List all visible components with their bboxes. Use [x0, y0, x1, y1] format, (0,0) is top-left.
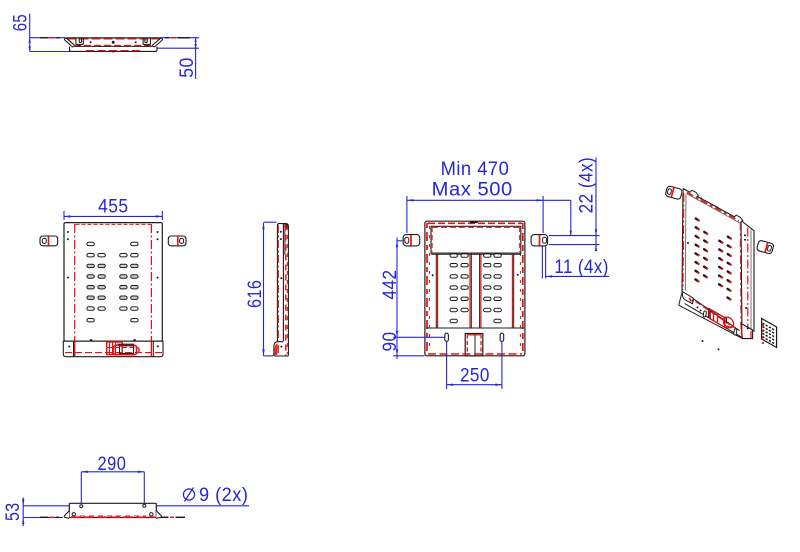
top view: red hidden line mid: [74, 44, 153, 46]
top view: center hole dot: [112, 41, 115, 44]
rear slot pattern: [450, 254, 501, 323]
rear left tab: [403, 235, 420, 246]
dimension 22 lines: [549, 158, 600, 251]
side tab edge black: [284, 224, 288, 229]
iso bottom band: [679, 293, 743, 339]
side red lines right strip: [285, 225, 287, 356]
top view: left hole dot: [90, 41, 92, 43]
svg-text:11 (4x): 11 (4x): [554, 257, 608, 278]
iso band red dash: [696, 302, 739, 331]
front plate outline: [64, 223, 162, 342]
bottom centerline dashes right: [161, 516, 185, 518]
bottom centerline dashes left: [40, 516, 59, 518]
bottom view bar: [69, 503, 156, 517]
right side tab: [168, 236, 186, 246]
bottom view red line: [71, 516, 155, 518]
dimension 65 lines: [30, 14, 70, 52]
corner hole dots: [67, 231, 159, 279]
rear mid red verticals: [438, 254, 513, 328]
iso red left edge: [682, 193, 685, 290]
side view outline: [274, 224, 289, 356]
red bend line left: [74, 224, 76, 356]
dimension 11 lines: [542, 247, 609, 279]
svg-text:65: 65: [10, 14, 31, 31]
rear red border hatch right: [522, 223, 524, 354]
dimension 290 lines: [81, 472, 144, 505]
side foot red blob: [275, 344, 278, 356]
iso bottom bracket red: [710, 309, 734, 328]
svg-text:442: 442: [380, 270, 401, 300]
top view: left wing: [64, 38, 74, 47]
bottom view left cap: [64, 511, 69, 519]
rear mid section verticals: [431, 253, 521, 328]
diameter leader line: [23, 505, 249, 507]
dimension 50 lines: [157, 38, 199, 79]
band red bend lines: [74, 341, 76, 357]
svg-text:53: 53: [3, 502, 24, 521]
iso small strainer part: [762, 318, 777, 347]
svg-text:Min 470: Min 470: [441, 159, 510, 180]
centerline dashes left: [40, 37, 60, 39]
bottom hooks on plate edge: [90, 339, 92, 341]
iso bottom bracket black: [708, 308, 726, 327]
top view: small marks: [78, 45, 148, 47]
dimension 616 lines: [264, 222, 277, 356]
centerline dashes right: [165, 37, 190, 39]
dimension 455 lines: [64, 211, 162, 220]
rear bottom center rect: [465, 334, 483, 356]
dimension minmax lines: [407, 196, 571, 236]
rear red border hatch left: [426, 223, 428, 354]
rear bottom band top edge: [426, 327, 524, 329]
central bracket red detail: [107, 342, 139, 355]
bottom view holes: [72, 504, 153, 516]
bottom view right cap: [156, 511, 161, 519]
band corner dots: [68, 346, 70, 348]
central bracket black detail: [118, 344, 135, 353]
side view dots: [280, 231, 283, 348]
svg-text:90: 90: [380, 332, 401, 352]
iso face dots: [687, 198, 747, 351]
dimension 442/90 lines: [393, 238, 445, 360]
red bend line right: [150, 224, 152, 356]
top view: back edge: [67, 37, 161, 39]
top view: left keyhole slot: [76, 39, 83, 45]
svg-text:9 (2x): 9 (2x): [199, 485, 248, 506]
svg-text:22 (4x): 22 (4x): [577, 157, 598, 214]
iso strainer red dots: [762, 324, 764, 344]
svg-text:50: 50: [177, 57, 198, 78]
top view: red back line: [68, 38, 160, 40]
bottom band outline: [63, 341, 163, 357]
iso left tab: [665, 186, 683, 200]
top view: right hole dot: [135, 41, 137, 43]
dimension 250 lines: [447, 342, 502, 390]
top view: right keyhole slot: [143, 39, 150, 45]
iso bottom band left foot: [682, 291, 693, 304]
rear top band: [431, 226, 521, 253]
iso right tab: [756, 240, 774, 254]
iso red right strip centerline: [747, 228, 749, 335]
left side tab: [40, 236, 58, 246]
iso slot pattern: [694, 217, 733, 301]
rear bottom slots: [445, 333, 449, 341]
svg-text:616: 616: [245, 280, 266, 308]
red top hidden line: [76, 223, 152, 225]
band red dashed bottom: [65, 352, 162, 354]
top view: red hidden line bottom: [86, 50, 141, 52]
rear top center mark: [470, 221, 478, 223]
iso red top edge: [687, 193, 739, 222]
bottom view red dash inner: [80, 515, 146, 517]
rear red top hatch: [428, 222, 522, 224]
rear plate outline: [425, 221, 525, 356]
dimension 53 lines: [23, 498, 63, 527]
svg-text:250: 250: [460, 365, 490, 386]
slot pattern front view: [87, 242, 138, 322]
iso top hooks: [690, 190, 743, 222]
svg-text:455: 455: [98, 197, 128, 218]
iso main face: [682, 189, 754, 338]
rear right tab: [531, 235, 548, 246]
side red centerline left: [277, 225, 279, 355]
rear mid dots: [432, 274, 434, 276]
rear bottom red dashes: [428, 353, 522, 355]
rear bottom center red: [467, 335, 481, 356]
iso bottom right foot: [741, 323, 753, 338]
iso band slots: [703, 311, 737, 335]
top view: bottom edge of bar: [75, 45, 153, 47]
rear top band red dashes: [432, 227, 520, 252]
top view: front flange: [70, 47, 158, 52]
band inner verticals: [73, 341, 75, 357]
top view: right wing: [152, 38, 162, 47]
iso inner edges: [685, 194, 751, 334]
svg-text:Max 500: Max 500: [432, 180, 513, 201]
iso red right inner: [739, 223, 742, 335]
